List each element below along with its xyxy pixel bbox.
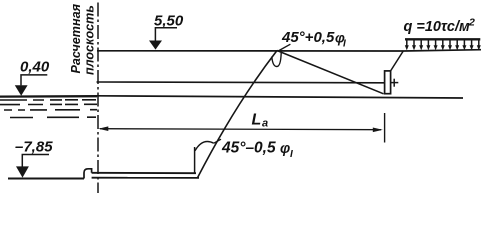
svg-text:0,40: 0,40 [20, 59, 50, 76]
La dimension end tick [384, 113, 386, 143]
water surface thick line [0, 95, 97, 98]
svg-text:плоскость: плоскость [83, 5, 97, 75]
svg-text:–7,85: –7,85 [15, 139, 53, 156]
water shading dashes [0, 100, 97, 118]
elevation mark -7,85 [15, 139, 53, 178]
groundwater line (third line) [97, 96, 463, 98]
bottom anchor bar (double line) [92, 173, 199, 178]
label "Расчетная плоскость" vertical text [69, 3, 97, 75]
svg-text:φ: φ [280, 141, 290, 157]
La dimension line with arrows [98, 126, 383, 132]
anchor tie rod (middle line) [97, 81, 385, 84]
distributed load arrows [405, 40, 481, 50]
top angle arc [272, 44, 291, 66]
elevation mark 0,40 [15, 59, 50, 96]
svg-text:q =10τc/м: q =10τc/м [404, 19, 471, 35]
svg-text:L: L [252, 112, 262, 129]
sliding wedge line 45-0.5phi (steep diagonal) [198, 51, 278, 178]
vertical reference at bar end [194, 147, 196, 173]
anchor plate [385, 71, 391, 94]
ground surface top line [97, 50, 481, 51]
svg-text:45°–0,5: 45°–0,5 [221, 140, 276, 157]
anchor pull line (shallow diagonal to plate) [277, 51, 384, 94]
distributed load header bar [405, 38, 480, 40]
elevation mark 5,50 [149, 13, 184, 50]
sea bottom line at -7,85 [8, 178, 84, 180]
design plane dash-dot vertical line [97, 3, 99, 194]
anchor plate top line to surface [391, 51, 404, 71]
svg-text:I: I [343, 39, 346, 50]
tie rod end stub and nut [391, 79, 399, 87]
svg-text:I: I [290, 149, 293, 160]
svg-text:5,50: 5,50 [154, 13, 184, 30]
svg-text:2: 2 [468, 16, 475, 28]
label La [252, 112, 269, 130]
label q = 10 тс/м2 [404, 16, 476, 35]
svg-text:a: a [262, 118, 268, 130]
svg-text:45°+0,5: 45°+0,5 [281, 29, 335, 46]
label 45°-0,5phi [221, 140, 293, 161]
label 45°+0,5phi [281, 29, 346, 50]
sheet pile toe hook [84, 169, 92, 179]
bottom angle arc [195, 139, 221, 151]
svg-text:Расчетная: Расчетная [69, 3, 83, 73]
